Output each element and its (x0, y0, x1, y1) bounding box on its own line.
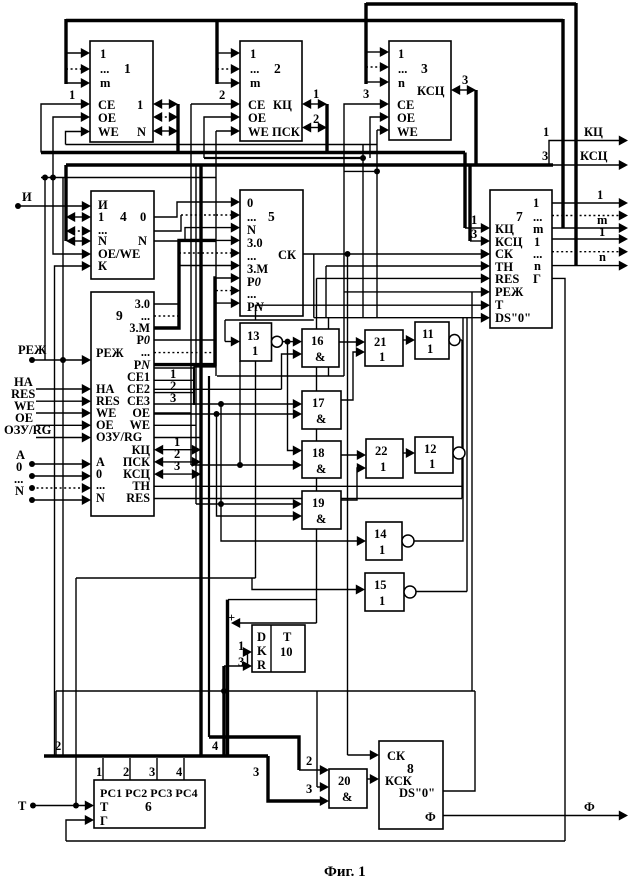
svg-text:DS"0": DS"0" (495, 311, 531, 325)
block 1 data inputs (arrows) (66, 52, 82, 54)
block 4 bidir data port (thick riser) (64, 165, 67, 241)
svg-text:1: 1 (124, 61, 131, 76)
svg-text:R: R (257, 658, 267, 672)
svg-text:15: 15 (374, 578, 387, 592)
wire СК down to block 8 (347, 254, 349, 755)
junction dot СК line (345, 251, 351, 257)
block 2 RAM unit (240, 41, 302, 141)
junction dot OE net (360, 155, 366, 161)
svg-text:1: 1 (429, 457, 435, 471)
block 5 selector СК (240, 190, 303, 316)
svg-text:3: 3 (174, 459, 180, 473)
svg-text:2: 2 (123, 765, 129, 779)
terminal N input (29, 497, 35, 503)
gate 22 second input from gate 19 (341, 468, 358, 500)
gate 19 (302, 491, 341, 529)
svg-text:...: ... (250, 62, 259, 76)
svg-text:RES: RES (495, 272, 519, 286)
svg-text:3: 3 (462, 73, 468, 87)
svg-text:m: m (533, 222, 544, 236)
block 2 ПСК bidir port (309, 127, 320, 129)
block 3 RAM unit КСЦ (389, 41, 451, 140)
wire РЕЖ input (32, 359, 83, 361)
svg-text:1: 1 (252, 344, 258, 358)
block 9 control unit (91, 292, 154, 516)
svg-text:2: 2 (219, 88, 225, 102)
svg-text:3: 3 (253, 765, 259, 779)
svg-text:...: ... (100, 62, 109, 76)
gate 11 output wire (460, 339, 462, 341)
junction dot WE riser (374, 168, 380, 174)
svg-text:m: m (250, 76, 261, 90)
svg-text:1: 1 (250, 47, 256, 61)
block 3 WE input wire (377, 129, 381, 131)
gate 20 (329, 769, 367, 808)
svg-text:3: 3 (471, 227, 477, 241)
wire vertical from OE net down (362, 145, 364, 317)
svg-text:1: 1 (427, 342, 433, 356)
svg-text:КЦ: КЦ (495, 222, 514, 236)
svg-text:6: 6 (145, 799, 152, 814)
gate 14 input wire (221, 404, 358, 541)
svg-text:OE: OE (98, 111, 116, 125)
svg-text:2: 2 (55, 739, 61, 753)
svg-text:...: ... (247, 287, 256, 301)
block 4 outputs to block 5 (154, 202, 216, 217)
svg-text:5: 5 (268, 209, 275, 224)
wire CE2 long vertical (190, 104, 192, 465)
block 1 WE input wire (66, 132, 83, 145)
block 7 DS0 input wire (328, 318, 330, 376)
svg-text:N: N (138, 234, 147, 248)
gate 14 (366, 522, 402, 560)
block 1 CE input wire (41, 104, 82, 153)
svg-text:17: 17 (312, 396, 325, 410)
svg-text:КСЦ: КСЦ (417, 84, 445, 98)
wire bus drop to block 3 inputs (364, 3, 367, 84)
wire bus drop to block 2 inputs (215, 19, 218, 84)
block 7 Г output wire down (552, 278, 565, 841)
block 2 WE input wire (216, 130, 232, 132)
wire vertical below gate 13 (255, 361, 257, 578)
svg-text:СК: СК (495, 247, 513, 261)
svg-text:n: n (534, 259, 541, 273)
svg-text:16: 16 (311, 334, 324, 348)
svg-text:CE: CE (397, 98, 414, 112)
svg-text:N: N (247, 223, 256, 237)
wire vertical to gate 19 input (195, 165, 197, 504)
svg-text:2: 2 (274, 61, 281, 76)
svg-text:18: 18 (312, 446, 325, 460)
junction dot Т (73, 803, 79, 809)
block 6 top connections to bus (102, 758, 104, 780)
terminal Т input (30, 803, 36, 809)
block 3 КСЦ bidir port (458, 89, 469, 91)
svg-text:OE: OE (248, 111, 266, 125)
block 4 К input wire (55, 266, 84, 756)
wire vertical from line to РЕЖ junction (62, 178, 64, 361)
svg-text:14: 14 (374, 527, 387, 541)
block 5 input arrows (216, 201, 232, 203)
block 9 СЕ1 СЕ2 СЕ3 output lines (154, 367, 194, 369)
bus data 3-4 (thick horizontal) (66, 163, 553, 166)
wire horizontal to WE riser (344, 170, 377, 172)
wire to gate 20 input 2 (317, 786, 321, 788)
block 1 RAM unit (90, 41, 153, 142)
svg-text:СК: СК (278, 248, 296, 262)
svg-text:21: 21 (374, 335, 387, 349)
svg-text:K: K (257, 644, 267, 658)
svg-text:DS"0": DS"0" (399, 786, 435, 800)
svg-text:РЕЖ: РЕЖ (96, 346, 125, 360)
block 7 outputs 1..m (552, 202, 620, 204)
svg-text:1: 1 (599, 225, 605, 239)
wire arrow left from block 10 area (239, 622, 317, 624)
block 7 КСЦ input arrow (470, 240, 482, 242)
gate 11 bubble (449, 335, 460, 346)
junction dot OE riser (50, 175, 56, 181)
gate 11 (415, 322, 449, 359)
svg-text:0: 0 (140, 210, 146, 224)
svg-text:ОЗУ/RG: ОЗУ/RG (96, 430, 143, 444)
gate 22 (366, 439, 403, 478)
svg-text:1: 1 (379, 350, 385, 364)
svg-text:3.М: 3.М (247, 262, 268, 276)
block 10 counter T (252, 625, 305, 672)
svg-text:1: 1 (100, 47, 106, 61)
svg-text:1: 1 (398, 47, 404, 61)
block 2 OE input wire (204, 117, 232, 158)
wire vertical DS0 from block 8 (443, 691, 475, 791)
svg-text:3: 3 (421, 61, 428, 76)
svg-text:1: 1 (379, 594, 385, 608)
gate 17 (302, 391, 341, 429)
svg-text:3: 3 (363, 87, 369, 101)
wire gate 11 output to ТН net (461, 340, 463, 499)
bus data 1-2 (thick horizontal) (41, 151, 465, 154)
svg-text:...: ... (141, 345, 150, 359)
gate 16 second input wire from СЕ2 line (154, 388, 282, 390)
svg-text:4: 4 (176, 765, 183, 779)
svg-text:1: 1 (313, 87, 319, 101)
wire vertical from left rail (44, 178, 46, 361)
svg-text:20: 20 (338, 774, 351, 788)
gate 18 input wire (191, 464, 294, 466)
wire vertical x473 from РЕЖ row to bottom line (471, 292, 473, 691)
block 8 Ф output wire (443, 815, 620, 817)
wire gate 20 output (367, 778, 371, 780)
block 7 СК input arrow (481, 249, 490, 259)
block 5 СК output wire (303, 253, 482, 255)
bus center vertical 2 (208, 376, 210, 737)
wire Т riser to rail (75, 578, 77, 806)
svg-text:1: 1 (69, 88, 75, 102)
svg-text:3: 3 (542, 149, 548, 163)
wire thin line to block 4 control (41, 177, 216, 179)
output КЦ wire with riser (549, 141, 620, 166)
gate 17 input wires with junction dots (154, 403, 294, 405)
bus drop to block 7 КСЦ input (468, 165, 471, 241)
svg-text:m: m (100, 76, 111, 90)
gate 14 bubble (402, 535, 414, 547)
svg-text:1: 1 (597, 188, 603, 202)
block 2 CE input wire (191, 103, 232, 105)
svg-text:N: N (15, 484, 24, 498)
svg-text:1: 1 (543, 125, 549, 139)
svg-text:1: 1 (96, 765, 102, 779)
junction dot after gate 13 (285, 339, 291, 345)
block 7 RES input wire (317, 277, 483, 279)
junction dot РЕЖ (60, 357, 66, 363)
wire riser to ТН line (325, 266, 327, 318)
terminal ... input (29, 485, 35, 491)
svg-text:Т: Т (283, 630, 292, 644)
wire bus riser from block 7 outputs n (574, 3, 577, 266)
svg-text:1: 1 (98, 210, 104, 224)
wire riser from СК line down (313, 254, 315, 318)
block 7 outputs 1..n (552, 238, 620, 240)
block 8 output former (379, 741, 443, 829)
svg-text:13: 13 (247, 329, 260, 343)
svg-text:&: & (316, 462, 326, 476)
svg-text:19: 19 (312, 496, 325, 510)
svg-text:11: 11 (422, 327, 434, 341)
wire Г return bottom (66, 840, 565, 842)
svg-text:WE: WE (397, 125, 418, 139)
block 9 КЦ ПСК КСЦ bidir ports (161, 449, 194, 451)
wire gate21 to gate11 (403, 339, 407, 341)
svg-text:WE: WE (248, 125, 269, 139)
gate 15 output wire (416, 591, 467, 593)
svg-text:RES: RES (126, 491, 150, 505)
gate 21 second input from gate 17 (341, 352, 357, 400)
wire OE common line (204, 157, 363, 159)
wire СЕ3 horizontal (217, 375, 344, 377)
wire vertical left end down to bus (55, 691, 57, 756)
junction dot gate 18 input (237, 462, 243, 468)
svg-text:4: 4 (120, 209, 127, 224)
wire WE common line (66, 144, 378, 146)
block 3 OE input wire (370, 117, 381, 158)
svg-text:...: ... (247, 210, 256, 224)
wire riser Т net above gate 13 (255, 305, 257, 320)
svg-text:К: К (98, 259, 107, 273)
wire vertical bracket ext (215, 131, 217, 202)
wire branch down from junction to gate 18 (288, 342, 295, 451)
block 9 З outputs to block 5 (thick riser) (154, 240, 216, 328)
gate 21 (365, 330, 403, 366)
block 1 data port riser (176, 104, 179, 153)
svg-text:2: 2 (313, 112, 319, 126)
svg-text:Ф: Ф (425, 810, 436, 824)
wire gate18 to gate22 (341, 454, 358, 456)
svg-text:OE: OE (397, 111, 415, 125)
junction dot left rail (42, 175, 48, 181)
bus center vertical thick (199, 165, 202, 756)
terminal И input (15, 203, 21, 209)
bus drop to block 7 КЦ input (463, 153, 466, 229)
svg-text:CE: CE (98, 98, 115, 112)
svg-text:1: 1 (137, 98, 143, 112)
block 4 OE/WE input wire (53, 178, 83, 255)
svg-text:Т: Т (18, 799, 27, 813)
block 2 port riser (325, 104, 328, 153)
wire И input (18, 205, 83, 207)
wire bus drop to block 1 inputs (64, 19, 67, 84)
block 4 register unit И (91, 191, 154, 279)
svg-text:РЕЖ: РЕЖ (18, 343, 47, 357)
svg-text:1: 1 (533, 196, 539, 210)
block 9 ОЕ output stub (154, 412, 191, 414)
wire WE riser extension down (376, 130, 378, 317)
svg-text:РЕЖ: РЕЖ (495, 285, 524, 299)
wire gate22 to gate12 (403, 452, 407, 454)
svg-text:Фиг. 1: Фиг. 1 (324, 864, 366, 880)
block 6 Г input wire (66, 820, 86, 841)
terminal А input (29, 461, 35, 467)
svg-text:n: n (398, 76, 405, 90)
wire vertical to gate 20 second input (316, 691, 318, 787)
svg-text:&: & (342, 790, 352, 804)
block 8 СК input wire (348, 754, 372, 756)
block 5 input bracket vertical (215, 202, 217, 367)
svg-text:N: N (98, 234, 107, 248)
svg-text:10: 10 (280, 645, 293, 659)
block 3 CE input wire (344, 104, 381, 376)
svg-text:9: 9 (116, 308, 123, 323)
gate 15 bubble (404, 586, 416, 598)
block 9 Р outputs to block 5 (thick riser) (154, 278, 216, 365)
svg-text:N: N (96, 491, 105, 505)
wire vertical x316 down to counter loop (316, 278, 318, 599)
gate 12 (415, 437, 453, 473)
gate 13 (240, 323, 272, 361)
bus elbow to gate 20 (268, 756, 321, 801)
bus thick vertical near block 10 (226, 600, 229, 756)
svg-text:Т: Т (495, 298, 504, 312)
svg-text:N: N (137, 125, 146, 139)
svg-text:22: 22 (375, 444, 388, 458)
gate 16 (302, 329, 339, 367)
block 9 ТН output wire (154, 485, 462, 487)
bus bottom thick (44, 754, 268, 757)
svg-text:CE: CE (248, 98, 265, 112)
svg-text:Т: Т (100, 800, 109, 814)
block 1 bidir data port (160, 103, 171, 105)
gate 18 (302, 441, 341, 478)
svg-text:Г: Г (533, 272, 541, 286)
gate 14 output wire riser (414, 318, 463, 541)
block 2 data inputs (arrows) (217, 52, 232, 54)
terminal РЕЖ (29, 357, 35, 363)
gate 12 bubble (453, 447, 465, 459)
svg-text:0: 0 (247, 196, 253, 210)
gate 19 input wires (196, 503, 294, 505)
wire vertical to block10 inputs (222, 666, 225, 756)
terminal 0 input (29, 473, 35, 479)
svg-text:РС1 РС2 РС3 РС4: РС1 РС2 РС3 РС4 (100, 786, 198, 800)
gate 15 input wire (252, 578, 357, 590)
block 7 output register (490, 190, 552, 328)
wire РЕЖ junction down to bus (62, 360, 64, 756)
wire gate16 to gate21 (339, 341, 357, 343)
svg-text:1: 1 (379, 543, 385, 557)
svg-text:3: 3 (170, 391, 176, 405)
svg-text:...: ... (398, 62, 407, 76)
bus thick from center vertical to gate 20 (209, 737, 299, 770)
block 9 ОЗУ output stub (154, 437, 201, 439)
bus top feedback m (wire) (66, 19, 563, 22)
svg-text:И: И (22, 190, 32, 204)
svg-text:...: ... (247, 249, 256, 263)
block 6 sync unit (94, 780, 205, 828)
wire СЕ bracket vertical (193, 367, 195, 406)
svg-text:СК: СК (387, 749, 405, 763)
svg-text:4: 4 (212, 739, 219, 753)
svg-text:&: & (315, 350, 325, 364)
svg-text:D: D (257, 630, 266, 644)
output КСЦ arrow from bus (553, 164, 620, 166)
svg-text:7: 7 (516, 209, 523, 224)
wire bus riser from block 7 outputs m (561, 19, 564, 228)
svg-text:...: ... (96, 478, 105, 492)
svg-text:2: 2 (306, 754, 312, 768)
svg-text:WE: WE (98, 125, 119, 139)
block 9 RES output wire (154, 498, 462, 500)
block 7 ТН input wire (326, 265, 482, 267)
svg-text:n: n (599, 250, 606, 264)
block 1 OE input wire (53, 117, 82, 178)
svg-text:1: 1 (380, 460, 386, 474)
block 2 КЦ bidir port (309, 103, 320, 105)
wire Т input (33, 805, 86, 807)
block 7 РЕЖ input wire (345, 291, 483, 293)
long horizontal wire y691 (56, 690, 475, 692)
block 9 WE output stub (154, 424, 196, 426)
svg-text:3: 3 (149, 765, 155, 779)
gate 15 (365, 573, 404, 611)
svg-text:ОЗУ/RG: ОЗУ/RG (4, 423, 52, 437)
gate 13 input wire (225, 319, 314, 321)
svg-text:КСЦ: КСЦ (580, 149, 608, 163)
gate 13 bubble (272, 336, 283, 347)
wire down to gate 15 output (466, 318, 468, 592)
svg-text:КЦ: КЦ (273, 98, 292, 112)
svg-text:3: 3 (306, 782, 312, 796)
svg-text:&: & (316, 412, 326, 426)
wire gate13 to gate16 (283, 341, 295, 343)
wire Т rail horizontal (76, 577, 256, 579)
svg-text:Г: Г (100, 814, 108, 828)
block 7 Т input wire (256, 304, 483, 306)
svg-text:3.0: 3.0 (247, 236, 263, 250)
svg-text:Ф: Ф (584, 800, 595, 814)
junction dot on long horizontal (221, 688, 227, 694)
svg-text:1: 1 (471, 213, 477, 227)
svg-text:&: & (316, 512, 326, 526)
block 3 port riser (474, 90, 477, 165)
wire vertical from gate13 area to 18 input (239, 361, 241, 465)
svg-text:12: 12 (424, 442, 437, 456)
svg-text:ПСК: ПСК (272, 125, 300, 139)
svg-text:КЦ: КЦ (584, 125, 603, 139)
block 7 КЦ input arrow (465, 227, 482, 229)
bus top feedback n (wire) (366, 2, 576, 5)
block 3 data inputs (arrows) (366, 51, 381, 53)
